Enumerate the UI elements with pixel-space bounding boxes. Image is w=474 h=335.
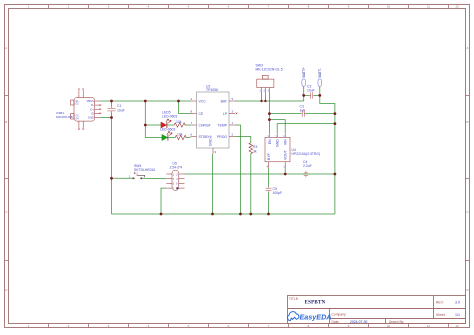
- wire red LED row: [145, 124, 190, 126]
- svg-text:TP4056: TP4056: [206, 88, 218, 92]
- header U5 2.54-2x4: [166, 162, 184, 191]
- resistor R (red LED) 10k: [174, 120, 185, 127]
- wire C2 row: [304, 94, 320, 96]
- svg-text:CE: CE: [199, 112, 204, 116]
- node GNDrow right: [334, 122, 337, 125]
- wire BATT+ stub: [303, 87, 305, 102]
- svg-text:LP: LP: [223, 112, 228, 116]
- svg-text:ESPBTN: ESPBTN: [305, 301, 326, 306]
- svg-text:10uF: 10uF: [307, 89, 315, 93]
- svg-text:TITLE:: TITLE:: [289, 297, 299, 301]
- capacitor C2: [307, 85, 315, 99]
- node EN VIN: [268, 118, 271, 121]
- svg-text:MICROUSB: MICROUSB: [56, 115, 73, 119]
- svg-text:10k: 10k: [177, 133, 183, 137]
- USB no-connect marks: [78, 88, 101, 130]
- wire SW4 to U5: [142, 177, 166, 179]
- svg-text:12: 12: [455, 5, 459, 9]
- svg-text:1/1: 1/1: [455, 313, 460, 317]
- wire EN-VIN jog: [269, 120, 285, 134]
- node BATT- C2: [318, 94, 321, 97]
- svg-text:VIN: VIN: [283, 139, 287, 145]
- junction dots: [110, 94, 336, 215]
- wire C5 bottom: [268, 192, 270, 214]
- node rail right: [334, 173, 337, 176]
- wire BATT- path: [320, 87, 335, 215]
- EasyEDA logo: [287, 312, 331, 322]
- wire SW4 left: [112, 177, 133, 179]
- node GND-C1: [110, 116, 113, 119]
- capacitor C3: [300, 105, 306, 117]
- node BATT+ C2: [302, 94, 305, 97]
- svg-text:GND: GND: [209, 138, 213, 146]
- svg-text:TEMP: TEMP: [218, 123, 228, 127]
- svg-text:3.0: 3.0: [455, 300, 460, 304]
- node SW3 leg2: [264, 100, 266, 102]
- wire SW3 leg3 to U4 EN: [268, 92, 270, 134]
- node bus TEMP: [239, 213, 242, 216]
- node bus C5: [267, 213, 270, 216]
- wire CE drop: [179, 101, 191, 114]
- svg-text:A: A: [466, 46, 468, 50]
- wire green LED row: [168, 137, 190, 139]
- wire GND vertical: [111, 118, 113, 215]
- svg-text:11: 11: [427, 324, 430, 328]
- node bus U2GND: [211, 213, 214, 216]
- switch SW3 MK-12C02N-G1.5: [256, 64, 283, 93]
- svg-text:2.2uF: 2.2uF: [303, 164, 312, 168]
- svg-text:10: 10: [387, 324, 391, 328]
- wire SW3 leg2: [264, 92, 266, 102]
- connector USB1 micro USB: [71, 91, 101, 129]
- svg-text:2024-07-30: 2024-07-30: [350, 320, 367, 324]
- capacitor C4: [303, 160, 312, 177]
- svg-text:100pF: 100pF: [273, 191, 283, 195]
- capacitor C5: [266, 187, 283, 195]
- svg-text:VCC: VCC: [199, 99, 207, 103]
- wire U4 GND row: [277, 124, 335, 134]
- svg-text:STDBY#: STDBY#: [199, 135, 212, 139]
- svg-text:10k: 10k: [176, 120, 182, 124]
- wire C3 row: [269, 113, 335, 115]
- node EN C3: [268, 112, 271, 115]
- node VOUT rail: [284, 173, 287, 176]
- svg-text:SKTDLHE010: SKTDLHE010: [134, 168, 155, 172]
- svg-text:EasyEDA: EasyEDA: [300, 312, 332, 321]
- wire U5 pin7 to bus: [161, 188, 166, 214]
- wire TEMP: [235, 125, 241, 214]
- node C3 right: [334, 112, 337, 115]
- wire VOUT stub: [284, 168, 286, 174]
- svg-text:Sheet:: Sheet:: [436, 313, 446, 317]
- LED LED5 red: [161, 111, 177, 128]
- svg-text:A: A: [5, 46, 7, 50]
- IC U2 TP4056: [191, 85, 238, 155]
- switch SW4 SKTDLHE010: [129, 164, 156, 179]
- svg-text:3k: 3k: [253, 150, 257, 154]
- svg-text:B: B: [5, 120, 7, 124]
- LED green: [160, 128, 175, 141]
- node bus U5: [160, 213, 163, 216]
- node VBUS-LED: [144, 100, 147, 103]
- U2 pin 3 no-connect: [235, 112, 237, 114]
- svg-text:11: 11: [427, 5, 430, 9]
- svg-text:MK-12C02N-G1.5: MK-12C02N-G1.5: [256, 68, 283, 72]
- svg-text:REV:: REV:: [436, 300, 444, 304]
- wire C1 top segment: [111, 101, 113, 107]
- node VBUS-CE: [177, 100, 180, 103]
- svg-text:BAT: BAT: [221, 99, 227, 103]
- node SW4 tap: [110, 177, 113, 180]
- node bus R3: [249, 213, 252, 216]
- svg-text:12: 12: [455, 324, 459, 328]
- svg-text:10uF: 10uF: [117, 108, 125, 112]
- wire C1 bottom segment: [111, 113, 113, 118]
- svg-text:HP2210A(3.3TRG): HP2210A(3.3TRG): [292, 152, 321, 156]
- svg-text:BYP: BYP: [267, 152, 271, 160]
- connector BATT-: [318, 68, 322, 86]
- USB1 pin names: [86, 99, 94, 120]
- resistor R3 3k: [249, 143, 257, 154]
- svg-text:Drawn By:: Drawn By:: [389, 320, 404, 324]
- USB1 labels: [56, 111, 73, 119]
- capacitor C1: [108, 104, 125, 113]
- svg-text:EN: EN: [268, 139, 272, 144]
- wire R3 bottom: [250, 154, 252, 214]
- svg-text:R3: R3: [253, 145, 257, 149]
- title block: [288, 296, 466, 324]
- wire 3V3 rail: [185, 173, 335, 175]
- svg-text:BATT+: BATT+: [302, 67, 306, 77]
- svg-text:1uF: 1uF: [300, 109, 306, 113]
- wire USB GND stub: [100, 117, 111, 119]
- svg-text:GND: GND: [88, 116, 94, 120]
- svg-text:10: 10: [387, 5, 391, 9]
- wire PROG to R3: [235, 137, 251, 143]
- node VBUS-C1: [110, 100, 113, 103]
- wire SW3 leg1: [261, 92, 263, 102]
- node SW3 leg1: [260, 100, 262, 102]
- resistor R (green LED) 10k: [175, 133, 186, 140]
- svg-text:Company:: Company:: [332, 312, 347, 316]
- wire BYP to C5: [268, 168, 270, 187]
- svg-text:LED-0603: LED-0603: [162, 115, 177, 119]
- svg-text:BATT-: BATT-: [318, 68, 322, 77]
- svg-text:VOUT: VOUT: [284, 149, 288, 160]
- wire VBUS (USB VBUS to U2 VCC): [100, 100, 190, 102]
- wire BAT row: [235, 100, 304, 102]
- connector BATT+: [302, 67, 306, 86]
- IC U4 HP2210A: [265, 133, 320, 168]
- wire LED feed vertical: [145, 101, 162, 138]
- svg-text:B: B: [466, 120, 468, 124]
- svg-text:LED-0603: LED-0603: [160, 128, 175, 132]
- svg-text:2.54-2*4: 2.54-2*4: [170, 166, 183, 170]
- wire GND bus: [112, 213, 336, 215]
- svg-text:GND: GND: [276, 139, 280, 147]
- svg-text:CHRG#: CHRG#: [199, 123, 211, 127]
- svg-text:PROG: PROG: [217, 135, 227, 139]
- svg-text:Date:: Date:: [332, 320, 340, 324]
- node LED split: [144, 124, 147, 127]
- wire U2 GND vertical: [212, 154, 214, 214]
